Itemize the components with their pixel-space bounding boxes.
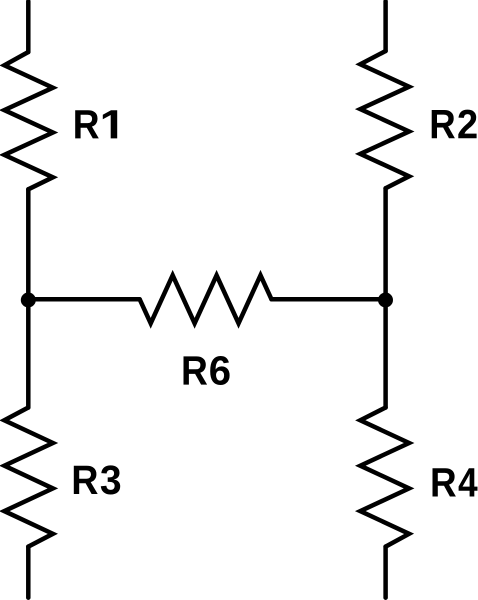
resistor R3 xyxy=(4,408,53,547)
label R1 xyxy=(75,110,117,138)
wire xyxy=(383,547,388,598)
wire xyxy=(383,1,388,51)
node B (right junction) xyxy=(378,293,393,308)
wire xyxy=(383,188,388,407)
wire xyxy=(26,1,31,52)
label R2 xyxy=(432,110,477,139)
node A (left junction) xyxy=(21,293,36,308)
wire xyxy=(26,547,31,598)
wire xyxy=(26,189,31,407)
resistor R2 xyxy=(360,51,409,188)
wire xyxy=(272,297,386,302)
label R3 xyxy=(74,465,120,494)
wire xyxy=(28,297,139,302)
resistor R4 xyxy=(360,408,409,547)
resistor R1 xyxy=(4,52,53,189)
label R4 xyxy=(433,468,478,496)
label R6 xyxy=(184,356,230,385)
resistor R6 xyxy=(140,275,272,323)
